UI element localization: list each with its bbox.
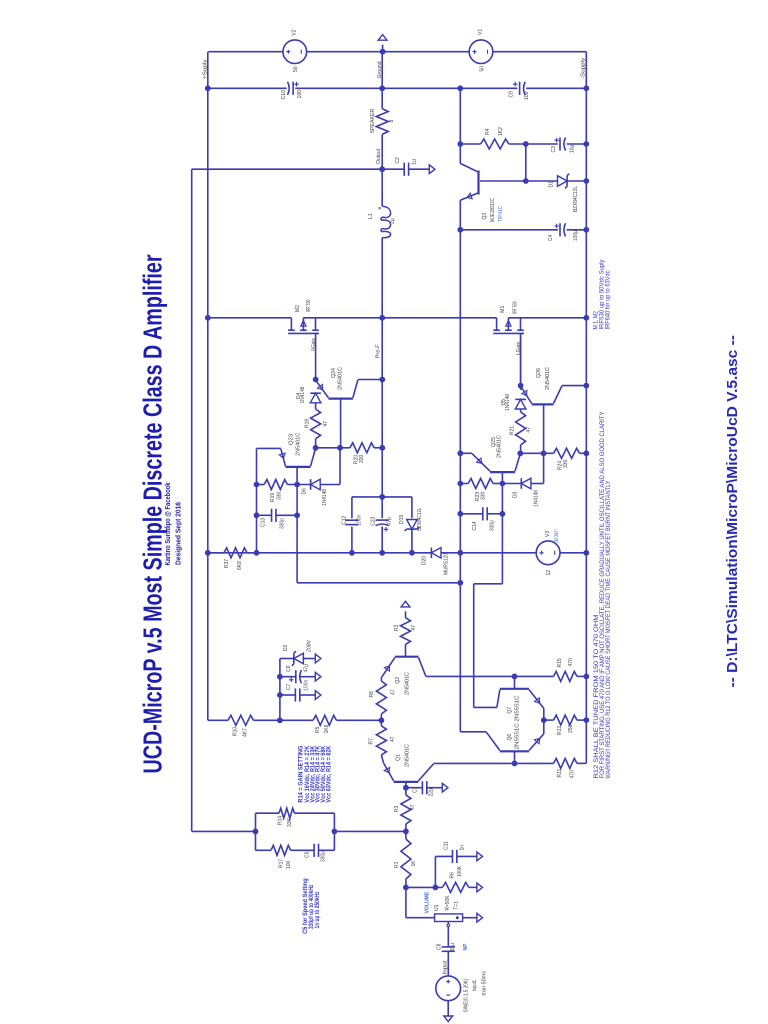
- svg-text:MJE15032C: MJE15032C: [490, 198, 496, 222]
- svg-text:Q7: Q7: [507, 707, 513, 714]
- svg-text:R2: R2: [394, 624, 400, 631]
- junction at 279.9,676.7: [277, 674, 283, 680]
- svg-text:SPEAKER: SPEAKER: [370, 109, 376, 134]
- svg-text:C8: C8: [437, 943, 443, 950]
- wire R15 row: [426, 675, 587, 677]
- svg-text:Kartino Surodipo @ Facebook: Kartino Surodipo @ Facebook: [163, 482, 172, 566]
- wire +Suply top rail: [208, 51, 586, 53]
- svg-text:100n: 100n: [303, 679, 309, 690]
- svg-text:R14 = GAIN SETTING: R14 = GAIN SETTING: [298, 745, 304, 802]
- junction at 586.3,676.4: [583, 674, 589, 680]
- svg-text:Q1: Q1: [395, 754, 401, 761]
- svg-text:R19: R19: [270, 493, 276, 502]
- junction at 543.6,453.3: [541, 450, 547, 456]
- junction at 297.1,484.5: [294, 482, 300, 488]
- wire Q6 emitter riser: [543, 720, 545, 734]
- svg-text:C4: C4: [548, 234, 554, 241]
- wire Q7 base stub: [514, 676, 516, 688]
- junction at 382.2,496.9: [379, 494, 385, 500]
- ground flag C1: [442, 783, 448, 792]
- wire x460 to Q6: [459, 553, 461, 732]
- svg-text:2N5401C: 2N5401C: [338, 367, 344, 390]
- svg-text:C3: C3: [551, 146, 557, 153]
- mosfet M2 IRF530: [288, 318, 319, 380]
- resistor R8: [376, 681, 386, 714]
- svg-text:R37: R37: [224, 559, 230, 568]
- resistor R10: [228, 715, 254, 725]
- wire R17 C5 leads: [256, 849, 335, 851]
- junction at 315.6,379.5: [313, 377, 319, 383]
- junction at 279.9,695.0: [277, 692, 283, 698]
- resistor R20: [350, 443, 374, 453]
- ground flag pot: [477, 913, 483, 922]
- capacitor C2: [404, 163, 408, 176]
- svg-text:1N4148: 1N4148: [300, 386, 306, 403]
- junction at 460.3,552.8: [457, 550, 463, 556]
- svg-text:100: 100: [297, 90, 303, 99]
- svg-text:C9: C9: [508, 91, 514, 98]
- resistor R17: [271, 845, 291, 855]
- transistor Q25: [472, 454, 520, 473]
- wire Q2 emitter elbow: [381, 676, 382, 678]
- svg-text:4K7: 4K7: [243, 728, 249, 737]
- potentiometer U1 VOLUME: [435, 914, 463, 927]
- wire D6 riser x340: [339, 448, 341, 485]
- wire D2C6C7 column: [279, 659, 281, 721]
- junction at 382.2,552.8: [379, 550, 385, 556]
- wire R8 top lead: [380, 678, 382, 682]
- svg-text:33µ: 33µ: [450, 943, 456, 952]
- wire C6 row: [280, 676, 315, 678]
- junction at 586.3,453.3: [583, 450, 589, 456]
- svg-text:1K8: 1K8: [324, 724, 330, 733]
- capacitor C4: [560, 223, 566, 236]
- svg-text:D1: D1: [548, 181, 554, 188]
- wire R8-R7 junction leads: [380, 714, 382, 726]
- junction at 460.3,88.3: [457, 85, 463, 91]
- junction at 256.5,484.5: [254, 482, 260, 488]
- wire Q26 collector row: [562, 385, 586, 387]
- mosfet M1 IRF530: [493, 318, 524, 386]
- wire feedback left vertical: [191, 169, 193, 831]
- resistor R24: [554, 448, 580, 458]
- ground flag R2: [401, 601, 410, 607]
- svg-text:BZX84C12L: BZX84C12L: [573, 186, 579, 212]
- junction at 460.3,483.5: [457, 481, 463, 487]
- ground flag C11: [477, 852, 483, 861]
- wire Q6 base stub: [514, 751, 516, 763]
- capacitor C13: [272, 509, 276, 522]
- wire top wire C12-D19: [352, 496, 412, 498]
- wire wiper to C8: [447, 927, 449, 947]
- svg-text:Q24: Q24: [331, 368, 337, 378]
- svg-text:Ground: Ground: [377, 61, 383, 78]
- wire second rail y88: [208, 87, 587, 89]
- wire R12 row: [544, 719, 587, 721]
- voltage source V4 input: [436, 976, 461, 1001]
- svg-text:-Supply: -Supply: [580, 58, 586, 79]
- svg-text:330: 330: [563, 459, 569, 468]
- svg-text:V3: V3: [545, 531, 551, 537]
- resistor R14: [279, 808, 295, 818]
- wire R11 row: [434, 762, 587, 764]
- ground flag V4: [444, 1016, 453, 1022]
- svg-text:C6: C6: [286, 665, 292, 672]
- wire x460 upper segment: [459, 88, 461, 163]
- svg-text:2N5401C: 2N5401C: [545, 367, 551, 390]
- svg-text:Z08V: Z08V: [307, 639, 313, 652]
- junction at 460.3,513.8: [457, 511, 463, 517]
- svg-text:R=50K: R=50K: [445, 895, 451, 911]
- svg-text:330: 330: [359, 454, 365, 463]
- zener diode D2: [292, 651, 304, 666]
- capacitor C8: [442, 947, 455, 951]
- svg-text:MURS120: MURS120: [443, 553, 449, 575]
- svg-text:R17: R17: [278, 859, 284, 868]
- svg-text:330: 330: [277, 491, 283, 500]
- junction at 382.2,317.8: [379, 315, 385, 321]
- svg-text:100: 100: [524, 91, 530, 100]
- wire D1 row: [480, 180, 586, 182]
- transistor Q2: [383, 657, 426, 677]
- junction at 297.1,515.3: [294, 512, 300, 518]
- resistor R15: [554, 671, 578, 681]
- wire D3 riser x543: [543, 453, 545, 483]
- wire Q24 base stub: [340, 399, 342, 448]
- svg-text:50: 50: [293, 66, 299, 72]
- svg-text:470: 470: [570, 770, 576, 779]
- svg-text:HGate: HGate: [311, 338, 317, 351]
- diode D6: [311, 479, 321, 490]
- junction at 586.3,229.8: [583, 227, 589, 233]
- wire R14 row main: [192, 830, 406, 832]
- svg-text:R14: R14: [277, 816, 283, 825]
- svg-text:1N4148: 1N4148: [505, 394, 511, 411]
- junction at 382.2,88.3: [379, 85, 385, 91]
- junction at 586.3,181: [583, 178, 589, 184]
- wire R18-junction: [315, 439, 317, 448]
- svg-text:R21: R21: [509, 426, 515, 435]
- svg-text:2N5401C: 2N5401C: [296, 432, 302, 455]
- svg-text:47: 47: [323, 421, 329, 427]
- inductor L1: [378, 206, 390, 238]
- voltage source V2: [283, 40, 307, 64]
- capacitor C1: [422, 781, 426, 794]
- svg-text:Designed Sept 2016: Designed Sept 2016: [174, 502, 183, 565]
- svg-text:Input: Input: [442, 960, 448, 974]
- ground flag C2: [429, 165, 435, 174]
- diode D5: [515, 399, 526, 409]
- svg-text:Q3: Q3: [482, 213, 488, 220]
- svg-text:1n up to 250kHz: 1n up to 250kHz: [315, 892, 321, 929]
- svg-text:C5: C5: [304, 851, 310, 858]
- junction at 586.3,385.6: [583, 383, 589, 389]
- svg-text:330: 330: [481, 491, 487, 500]
- wire left +Suply rail vertical: [207, 52, 209, 721]
- wire output row: [192, 168, 430, 170]
- wire R21-junction: [520, 445, 522, 453]
- junction at 543.8,720.1: [541, 717, 547, 723]
- wire C8 to V4: [447, 951, 449, 976]
- svg-text:C1: C1: [412, 786, 418, 793]
- svg-text:C11: C11: [443, 841, 449, 850]
- voltage source V3: [536, 541, 560, 565]
- junction at 514.5,763.4: [512, 761, 518, 767]
- wire R10 R5 row: [208, 719, 382, 721]
- svg-text:.tran 50ms: .tran 50ms: [481, 970, 487, 997]
- svg-text:SINE(0 1.5 20K): SINE(0 1.5 20K): [463, 978, 469, 1012]
- wire B bases-to-Q7col: [474, 584, 503, 708]
- capacitor C9: [520, 82, 526, 95]
- resistor R19: [264, 480, 287, 490]
- junction at 520.3,453.3: [517, 450, 523, 456]
- resistor R18: [311, 409, 321, 439]
- svg-text:47: 47: [390, 689, 396, 695]
- transistor Q23: [279, 448, 315, 467]
- svg-text:47: 47: [390, 736, 396, 742]
- junction at 334.4,831.4: [332, 829, 338, 835]
- resistor R5: [313, 715, 336, 725]
- wire Q25 base column: [501, 472, 503, 584]
- junction at 382.6,51.7: [380, 49, 386, 55]
- junction at 411.9,552.8: [409, 550, 415, 556]
- svg-text:2N5401C: 2N5401C: [404, 672, 410, 695]
- wire Q23 emitter row: [257, 447, 282, 449]
- svg-text:22p: 22p: [428, 788, 434, 797]
- svg-text:330p: 330p: [320, 851, 326, 862]
- junction at 405.9,887.4: [403, 885, 409, 891]
- svg-text:D3: D3: [512, 491, 518, 498]
- svg-text:47: 47: [411, 625, 417, 631]
- wire C13 row: [257, 514, 298, 516]
- svg-text:Pre-F: Pre-F: [375, 344, 381, 359]
- junction at 382.2,169.2: [379, 166, 385, 172]
- svg-text:L1: L1: [368, 213, 374, 219]
- svg-text:R15: R15: [557, 658, 563, 667]
- wire R7 bottom lead: [381, 755, 383, 763]
- svg-text:R4: R4: [485, 128, 491, 135]
- wire Q7 emitter riser: [543, 708, 545, 720]
- wire x256 column: [256, 448, 258, 552]
- resistor R12: [554, 715, 578, 725]
- svg-text:M2: M2: [295, 305, 301, 312]
- capacitor C14: [483, 507, 487, 520]
- junction at 586.3,144: [583, 141, 589, 147]
- svg-text:10µ: 10µ: [570, 144, 576, 153]
- svg-text:WARNING!! REDUCING R12 TO O LO: WARNING!! REDUCING R12 TO O LOW CAUSE SH…: [605, 481, 612, 779]
- wire R37 row leads: [208, 552, 257, 554]
- wire C12 column: [351, 497, 353, 553]
- svg-text:IRF640 for up to 63Vdc: IRF640 for up to 63Vdc: [606, 271, 612, 330]
- svg-text:1n: 1n: [459, 845, 465, 851]
- svg-text:6K8: 6K8: [237, 561, 243, 570]
- resistor R2: [401, 618, 411, 645]
- junction at 405.9,831.4: [403, 829, 409, 835]
- svg-text:1N4148: 1N4148: [534, 490, 540, 507]
- junction at 340.0,447.8: [337, 445, 343, 451]
- svg-text:100K: 100K: [457, 865, 463, 877]
- resistor R7: [376, 726, 386, 755]
- wire Q24 collector row: [358, 379, 382, 381]
- svg-text:330p: 330p: [490, 520, 496, 531]
- resistor SPEAKER: [376, 109, 388, 135]
- svg-text:100µ: 100µ: [573, 230, 579, 241]
- svg-text:50: 50: [480, 66, 486, 72]
- transistor Q6 2N5551C: [486, 732, 544, 752]
- svg-text:2N5401C: 2N5401C: [404, 744, 410, 767]
- svg-text:C10: C10: [281, 90, 287, 100]
- wire bottom rail: [208, 552, 587, 554]
- svg-text:1N4148: 1N4148: [322, 489, 328, 506]
- svg-text:IRF 530: IRF 530: [512, 301, 518, 314]
- svg-text:T=1: T=1: [453, 901, 459, 910]
- capacitor C5: [314, 844, 318, 857]
- svg-text:R5: R5: [315, 726, 321, 733]
- svg-text:V2: V2: [291, 29, 297, 35]
- svg-text:2µ: 2µ: [390, 218, 396, 224]
- svg-text:D20: D20: [421, 556, 427, 565]
- transistor Q24: [316, 380, 358, 399]
- svg-text:330p: 330p: [280, 518, 286, 529]
- wire D5-R21: [520, 409, 522, 412]
- svg-text:R6: R6: [449, 872, 455, 879]
- wire D2 row: [280, 658, 315, 660]
- wire D19 column: [411, 497, 413, 553]
- zener diode D1: [558, 174, 570, 189]
- junction at 256.5,515.3: [254, 512, 260, 518]
- svg-text:12: 12: [546, 570, 552, 576]
- ground flag R6: [477, 883, 483, 892]
- junction at 207.8,552.8: [205, 550, 211, 556]
- diode D4: [310, 393, 321, 403]
- svg-text:M1: M1: [500, 306, 506, 313]
- junction at 256.5,552.8: [254, 550, 260, 556]
- svg-text:VOLUME: VOLUME: [424, 891, 430, 913]
- wire R23 row: [460, 483, 502, 485]
- wire V4 to gnd: [447, 1001, 449, 1016]
- junction at 586.3,317.8: [583, 315, 589, 321]
- junction at 315.6,447.8: [313, 445, 319, 451]
- junction at 279.9,720.3: [277, 717, 283, 723]
- junction at 460.3,144: [457, 141, 463, 147]
- svg-text:D2: D2: [283, 644, 289, 651]
- svg-text:100: 100: [286, 860, 292, 869]
- junction at 520.6,385.6: [518, 383, 524, 389]
- capacitor C6: [296, 670, 302, 683]
- svg-text:8: 8: [389, 120, 395, 123]
- svg-text:47: 47: [526, 427, 532, 433]
- wire x460 lower segment: [459, 200, 461, 553]
- junction at 514.5,676.4: [512, 674, 518, 680]
- wire x525 riser: [525, 144, 527, 181]
- transistor Q26: [521, 386, 562, 405]
- svg-text:Vcc 63Vdc, R14 = 82K: Vcc 63Vdc, R14 = 82K: [327, 745, 333, 803]
- svg-text:C13: C13: [261, 518, 267, 527]
- svg-text:R11: R11: [557, 768, 563, 777]
- svg-text:2N5401C: 2N5401C: [497, 435, 503, 458]
- junction at 460.3,582.8: [457, 580, 463, 586]
- svg-text:Q6: Q6: [507, 734, 513, 741]
- resistor R3: [401, 795, 411, 824]
- junction at 525.8,144: [523, 141, 529, 147]
- svg-text:IRF 530: IRF 530: [306, 299, 312, 312]
- capacitor C10: [288, 82, 294, 95]
- resistor R6: [443, 882, 469, 892]
- junction at 255.5,831.4: [253, 829, 259, 835]
- voltage source V1: [469, 40, 493, 64]
- junction at 405.9,787.7: [403, 785, 409, 791]
- svg-text:TIP41C: TIP41C: [498, 206, 504, 222]
- junction at 502.4,483.5: [500, 481, 506, 487]
- svg-text:33K: 33K: [287, 817, 293, 827]
- svg-text:Output: Output: [376, 149, 382, 164]
- ground flag top (net 0): [378, 35, 387, 41]
- resistor R4: [481, 139, 509, 149]
- svg-text:2N5551C 2N5551C: 2N5551C 2N5551C: [514, 695, 520, 749]
- svg-text:47µ: 47µ: [303, 664, 309, 673]
- wire Q6 collector row: [460, 731, 486, 733]
- wire LGate column: [520, 333, 522, 390]
- svg-text:SIM ONLY!: SIM ONLY!: [554, 530, 560, 544]
- junction at 382.3,379.5: [379, 377, 385, 383]
- svg-text:1K2: 1K2: [498, 127, 504, 136]
- svg-text:+Suply: +Suply: [202, 59, 208, 79]
- zener diode D19: [405, 520, 420, 532]
- svg-text:R12: R12: [557, 726, 563, 735]
- junction at 381.4,720.3: [379, 717, 385, 723]
- resistor R23: [468, 479, 493, 489]
- svg-text:BZX84C12L: BZX84C12L: [417, 508, 423, 531]
- capacitor C12: [345, 520, 358, 524]
- junction at 382.3,447.8: [379, 445, 385, 451]
- ground flag C7: [315, 691, 321, 700]
- svg-text:1K: 1K: [411, 860, 417, 867]
- wire Q7 collector row: [474, 706, 497, 708]
- wire R14 block verticals: [256, 813, 335, 850]
- capacitor C7: [295, 688, 299, 701]
- svg-text:1µ: 1µ: [411, 159, 417, 165]
- wire Q25 emitter row: [460, 452, 472, 454]
- junction at 586.3,88.3: [583, 85, 589, 91]
- diode D3: [521, 478, 531, 489]
- svg-text:C7: C7: [286, 683, 292, 690]
- wire C11 branch: [435, 856, 477, 887]
- wire D4-R18: [315, 403, 317, 409]
- svg-text:C14: C14: [472, 521, 478, 530]
- wire R24 row: [520, 452, 586, 454]
- junction at 207.8,317.8: [205, 315, 211, 321]
- capacitor C23: [376, 520, 389, 526]
- capacitor C3: [560, 137, 566, 150]
- junction at 502.4,513.8: [500, 511, 506, 517]
- svg-text:NP: NP: [463, 943, 469, 951]
- wire C1 row: [406, 787, 442, 789]
- svg-text:R10: R10: [232, 727, 238, 736]
- svg-text:C12: C12: [342, 516, 348, 525]
- capacitor C11: [452, 850, 456, 863]
- svg-text:Q2: Q2: [395, 677, 401, 684]
- junction at 207.8,88.3: [205, 85, 211, 91]
- transistor Q7 2N5551C: [497, 689, 544, 709]
- svg-text:D6: D6: [301, 488, 307, 495]
- ground flag D2: [315, 654, 321, 663]
- junction at 435.4,887.4: [433, 885, 439, 891]
- svg-text:D19: D19: [399, 515, 405, 524]
- wire Q1 base stub: [405, 782, 407, 788]
- wire R19 D6 row: [257, 484, 341, 486]
- wire R6 row: [406, 886, 477, 888]
- svg-text:R8: R8: [369, 691, 375, 698]
